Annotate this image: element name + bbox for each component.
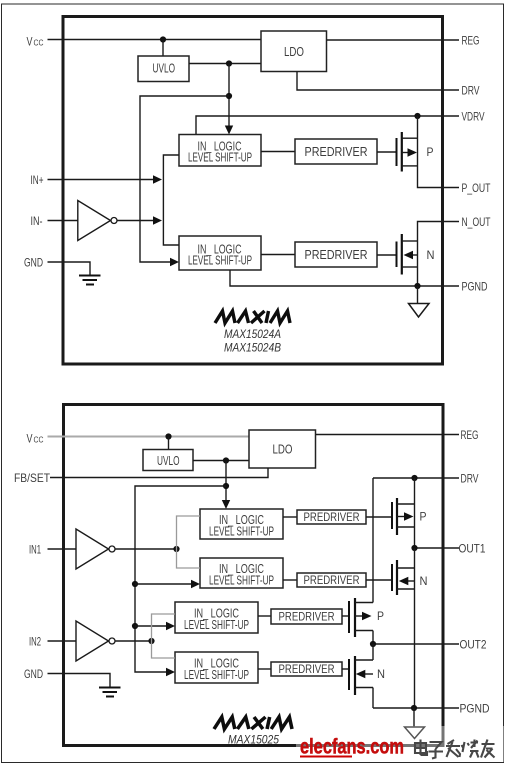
wire VCC2 to UVLO — [168, 437, 170, 450]
junction PGND2 — [411, 705, 417, 711]
power ground symbol 2 — [405, 727, 425, 739]
wire tap to left branch — [140, 96, 229, 262]
transistor Q5 arrow — [362, 612, 372, 620]
arrow into shifter C2 left — [191, 580, 200, 588]
arrow into shifter C1 top — [222, 500, 230, 509]
watermark chinese char fa — [446, 740, 460, 757]
svg-text:LDO: LDO — [273, 442, 293, 457]
block level shifter C2 — [200, 558, 283, 588]
inverter U7 bubble — [109, 638, 115, 644]
svg-text:PREDRIVER: PREDRIVER — [304, 510, 360, 524]
wire tap2 left branch — [135, 486, 226, 672]
block PREDRIVER D4 — [271, 662, 342, 676]
wire tap down from UVLO-LDO — [228, 64, 230, 130]
block level shifter C3 — [175, 602, 258, 633]
junction VCC2-UVLO — [165, 433, 171, 439]
outer box MAX15025 — [64, 405, 444, 746]
wire branch to C2 — [135, 583, 192, 585]
svg-text:IN-: IN- — [31, 214, 43, 228]
watermark chinese char dian — [415, 740, 427, 756]
wire to power ground symbol — [417, 286, 419, 304]
transistor Q1 stubs — [402, 138, 418, 166]
svg-text:V: V — [27, 35, 33, 49]
arrow into shifter C4 left — [166, 668, 175, 676]
block PREDRIVER D2 — [297, 573, 366, 587]
svg-text:LEVEL SHIFT-UP: LEVEL SHIFT-UP — [209, 573, 274, 588]
transistor Q3 P1 gate bar — [391, 502, 393, 529]
wire C3 to predriver D3 — [258, 615, 271, 617]
wire VCC — [48, 39, 262, 41]
wire OUT2 — [373, 643, 459, 645]
wire DRV rail to P2 — [372, 478, 374, 603]
logo MAXIM bottom — [214, 717, 292, 729]
wire input bus — [163, 155, 179, 245]
inverter U7 — [76, 621, 109, 661]
wire D4 to N2 gate — [342, 668, 349, 670]
svg-text:MAX15025: MAX15025 — [228, 733, 279, 747]
svg-text:P: P — [420, 510, 427, 524]
wire inverter2 out — [115, 640, 152, 642]
junction UVLO2-LDO2 tap — [223, 457, 229, 463]
svg-text:N: N — [427, 248, 435, 262]
junction UVLO-LDO tap — [226, 60, 232, 66]
junction tap split — [226, 93, 232, 99]
transistor Q2 stubs — [402, 241, 418, 267]
wire bus1 gray — [177, 516, 201, 568]
power ground symbol top — [409, 304, 430, 318]
svg-text:CC: CC — [34, 38, 44, 48]
block level shifter C4 — [175, 652, 258, 683]
wire predriver2 to N gate — [377, 254, 396, 256]
svg-text:LEVEL SHIFT-UP: LEVEL SHIFT-UP — [188, 150, 252, 165]
arrow into shifter2 left — [170, 258, 179, 266]
wire C2 to predriver D2 — [283, 579, 297, 581]
svg-text:N_OUT: N_OUT — [462, 215, 491, 229]
wire shifter2 to predriver2 — [261, 254, 295, 256]
junction inv2 bus — [148, 638, 154, 644]
junction branch to C2 — [132, 581, 138, 587]
block PREDRIVER B2 — [295, 242, 377, 267]
svg-text:REG: REG — [462, 34, 480, 48]
block PREDRIVER B1 — [295, 139, 377, 164]
svg-text:LEVEL SHIFT-UP: LEVEL SHIFT-UP — [209, 524, 274, 539]
wire shifter2 to PGND rail — [230, 270, 459, 286]
svg-text:CC: CC — [34, 435, 44, 445]
svg-text:IN1: IN1 — [29, 543, 41, 557]
block level shifter A2 — [179, 236, 261, 270]
inverter U6 bubble — [109, 546, 115, 552]
transistor Q2 N gate bar — [396, 242, 398, 268]
wire IN1 — [48, 548, 77, 550]
inverter U3 bubble — [111, 218, 117, 224]
arrow into shifter1 top — [225, 126, 233, 135]
svg-text:PGND: PGND — [460, 702, 490, 716]
svg-text:PREDRIVER: PREDRIVER — [279, 662, 335, 676]
wire C1 to predriver D1 — [283, 516, 297, 518]
wire IN2 — [48, 640, 77, 642]
arrow IN+ into bus — [153, 175, 162, 183]
wire branch to C3 — [135, 625, 167, 627]
wire UVLO to LDO — [189, 63, 261, 65]
block UVLO U4 — [143, 450, 193, 471]
wire GND — [48, 262, 91, 276]
svg-text:PGND: PGND — [462, 280, 488, 294]
transistor Q4 arrow — [399, 577, 409, 585]
svg-text:PREDRIVER: PREDRIVER — [305, 145, 368, 159]
transistor Q6 N2 channel bar — [354, 656, 356, 695]
block LDO U5 — [249, 430, 316, 468]
transistor Q5 stubs — [355, 603, 373, 631]
svg-text:UVLO: UVLO — [157, 453, 180, 468]
watermark lightening overlay — [296, 726, 505, 762]
junction OUT1 — [411, 545, 417, 551]
inverter U3 — [78, 201, 111, 241]
wire Q1 source-drain rail — [418, 116, 460, 188]
ground symbol bottom — [99, 688, 121, 697]
watermark chinese char zi — [429, 742, 444, 759]
wire D1 to P1 gate — [366, 516, 392, 518]
transistor Q3 stubs — [397, 504, 415, 527]
transistor Q6 arrow — [356, 670, 366, 678]
svg-text:N: N — [420, 574, 428, 588]
junction tap2 split — [223, 483, 229, 489]
transistor Q5 P2 channel bar — [354, 598, 356, 637]
svg-text:REG: REG — [461, 428, 479, 442]
svg-text:elecfans.com: elecfans.com — [300, 736, 404, 759]
transistor Q5 P2 gate bar — [348, 601, 350, 633]
watermark chinese char shao — [462, 740, 479, 758]
svg-text:IN+: IN+ — [31, 173, 44, 187]
wire C4 to predriver D4 — [258, 668, 271, 670]
wire D2 to N1 gate — [366, 579, 392, 581]
junction VDRV-PFET — [414, 113, 420, 119]
svg-text:P: P — [427, 145, 434, 159]
wire LDO to DRV — [297, 72, 459, 91]
wire D3 to P2 gate — [342, 615, 349, 617]
svg-text:LEVEL SHIFT-UP: LEVEL SHIFT-UP — [188, 253, 252, 268]
svg-text:PREDRIVER: PREDRIVER — [305, 248, 368, 262]
wire VCC to UVLO — [162, 40, 164, 57]
svg-text:UVLO: UVLO — [153, 61, 176, 76]
wire IN+ — [48, 179, 154, 181]
svg-text:N: N — [377, 667, 385, 681]
ground symbol top — [79, 276, 101, 285]
wire inverter out — [117, 220, 153, 222]
wire REG — [327, 39, 460, 41]
svg-text:PREDRIVER: PREDRIVER — [279, 610, 335, 624]
wire VCC2 gray — [48, 436, 250, 438]
wire VDRV — [196, 116, 459, 135]
junction branch to C3 — [132, 623, 138, 629]
wire Q4 rail to PGND — [414, 548, 416, 708]
wire OUT1 — [415, 547, 460, 549]
svg-text:FB/SET: FB/SET — [14, 471, 51, 485]
transistor Q4 N1 gate bar — [391, 564, 393, 591]
transistor Q4 N1 channel bar — [396, 560, 398, 595]
wire GND2 — [48, 674, 111, 688]
wire Q5 to OUT2 — [372, 631, 374, 645]
watermark chinese char you — [481, 740, 495, 758]
arrow into shifter C3 left — [166, 622, 175, 630]
wire Q3 rail — [414, 478, 416, 548]
transistor Q3 P1 channel bar — [396, 498, 398, 535]
svg-text:LEVEL SHIFT-UP: LEVEL SHIFT-UP — [184, 667, 249, 682]
transistor Q3 arrow — [404, 512, 414, 520]
svg-text:DRV: DRV — [461, 472, 479, 486]
wire N_OUT — [418, 222, 460, 287]
junction VCC-UVLO — [160, 36, 166, 42]
junction DRV2 — [411, 475, 417, 481]
svg-text:P_OUT: P_OUT — [462, 181, 491, 195]
arrow inverter out into bus — [153, 216, 162, 224]
block UVLO U1 — [138, 56, 189, 82]
logo MAXIM top — [215, 311, 290, 323]
outer box MAX15024 — [63, 17, 443, 365]
svg-text:DRV: DRV — [462, 84, 480, 98]
svg-text:OUT2: OUT2 — [460, 638, 487, 652]
svg-text:LEVEL SHIFT-UP: LEVEL SHIFT-UP — [184, 617, 249, 632]
block PREDRIVER D1 — [297, 510, 366, 524]
wire FB/SET — [50, 468, 268, 478]
svg-text:LDO: LDO — [284, 44, 304, 59]
wire PGND2 — [373, 707, 459, 709]
block LDO U2 — [261, 31, 327, 72]
transistor Q4 stubs — [397, 568, 415, 589]
svg-text:OUT1: OUT1 — [459, 542, 486, 556]
junction OUT2 — [370, 641, 376, 647]
svg-text:VDRV: VDRV — [462, 110, 485, 124]
transistor Q2 N channel bar — [401, 234, 403, 275]
junction PGND — [414, 283, 420, 289]
block level shifter C1 — [200, 509, 283, 539]
transistor Q2 arrow — [404, 251, 414, 259]
svg-text:MAX15024B: MAX15024B — [224, 341, 281, 355]
transistor Q1 P gate bar — [396, 138, 398, 166]
svg-text:V: V — [27, 432, 33, 446]
wire tap down from UVLO2 — [225, 461, 227, 504]
transistor Q1 P channel bar — [401, 132, 403, 172]
transistor Q6 N2 gate bar — [348, 659, 350, 690]
wire UVLO2 to LDO2 — [193, 460, 249, 462]
svg-text:GND: GND — [24, 256, 43, 270]
junction inv1 bus — [173, 546, 179, 552]
wire Q6 rails — [372, 644, 374, 708]
wire IN- — [48, 220, 78, 222]
wire bus2 gray — [152, 614, 176, 658]
wire DRV2 — [373, 477, 459, 479]
svg-text:MAX15024A: MAX15024A — [224, 327, 281, 341]
wire predriver1 to P gate — [377, 151, 396, 153]
block PREDRIVER D3 — [271, 609, 342, 624]
inverter U6 — [76, 529, 109, 569]
svg-text:P: P — [377, 609, 384, 623]
transistor Q6 stubs — [355, 660, 373, 688]
wire inverter1 out — [115, 548, 177, 550]
wire to power ground 2 — [413, 708, 415, 727]
watermark red underline — [300, 756, 352, 758]
svg-text:IN2: IN2 — [29, 635, 41, 649]
wire REG2 — [316, 434, 460, 436]
svg-text:PREDRIVER: PREDRIVER — [304, 573, 360, 587]
transistor Q1 arrow — [408, 148, 418, 156]
wire shifter1 to predriver1 — [261, 151, 295, 153]
svg-text:GND: GND — [24, 667, 43, 681]
block level shifter A1 — [179, 135, 261, 167]
